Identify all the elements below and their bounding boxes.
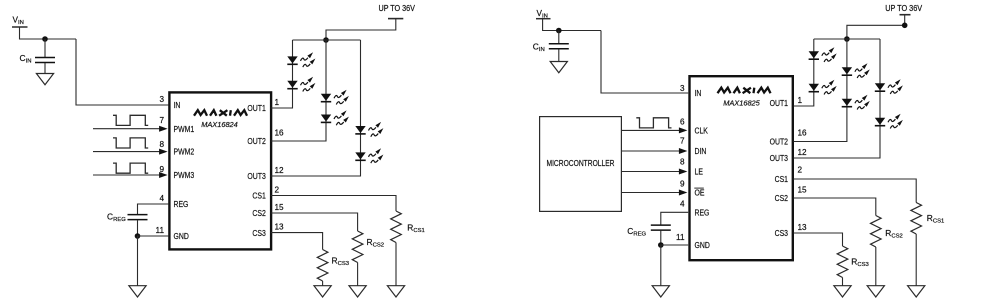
svg-text:13: 13: [798, 223, 808, 232]
svg-text:4: 4: [159, 194, 164, 203]
svg-text:1: 1: [275, 98, 280, 107]
svg-text:PWM3: PWM3: [174, 171, 195, 180]
svg-text:OE: OE: [695, 189, 705, 198]
svg-text:CS1: CS1: [252, 192, 266, 201]
svg-text:REG: REG: [695, 208, 710, 217]
svg-text:OUT2: OUT2: [247, 137, 266, 146]
svg-text:11: 11: [156, 226, 165, 235]
svg-text:1: 1: [798, 96, 803, 105]
svg-text:CS1: CS1: [775, 175, 789, 184]
svg-text:3: 3: [159, 95, 164, 104]
svg-text:MAX16825: MAX16825: [723, 98, 760, 107]
svg-text:OUT1: OUT1: [770, 99, 789, 108]
svg-text:PWM1: PWM1: [174, 125, 195, 134]
svg-text:OUT1: OUT1: [247, 104, 266, 113]
svg-text:2: 2: [275, 186, 280, 195]
svg-text:DIN: DIN: [695, 147, 707, 156]
svg-text:11: 11: [676, 233, 685, 242]
svg-text:12: 12: [798, 148, 808, 157]
svg-text:OUT3: OUT3: [247, 172, 266, 181]
svg-text:CS2: CS2: [252, 209, 266, 218]
svg-text:2: 2: [798, 166, 803, 175]
svg-text:8: 8: [680, 157, 685, 166]
svg-text:7: 7: [680, 137, 685, 146]
svg-text:16: 16: [798, 129, 808, 138]
svg-text:8: 8: [159, 140, 164, 149]
svg-text:GND: GND: [174, 232, 189, 241]
svg-text:CS3: CS3: [775, 229, 789, 238]
svg-text:LE: LE: [695, 168, 704, 177]
svg-text:3: 3: [680, 84, 685, 93]
svg-text:IN: IN: [174, 101, 181, 110]
svg-text:MICROCONTROLLER: MICROCONTROLLER: [547, 159, 615, 168]
svg-text:CLK: CLK: [695, 127, 709, 136]
svg-text:GND: GND: [695, 241, 710, 250]
svg-text:15: 15: [798, 186, 808, 195]
svg-text:13: 13: [275, 223, 285, 232]
svg-text:OUT3: OUT3: [770, 154, 789, 163]
svg-text:REG: REG: [174, 200, 189, 209]
svg-text:IN: IN: [695, 89, 702, 98]
svg-text:OUT2: OUT2: [770, 138, 789, 147]
svg-text:CS2: CS2: [775, 194, 789, 203]
svg-text:UP TO 36V: UP TO 36V: [379, 4, 416, 13]
svg-text:9: 9: [680, 179, 685, 188]
svg-text:6: 6: [680, 118, 685, 127]
svg-text:UP TO 36V: UP TO 36V: [885, 4, 923, 13]
svg-text:16: 16: [275, 128, 285, 137]
svg-text:4: 4: [680, 200, 685, 209]
svg-text:CS3: CS3: [252, 229, 266, 238]
svg-text:12: 12: [275, 166, 285, 175]
svg-text:7: 7: [159, 116, 164, 125]
svg-text:PWM2: PWM2: [174, 148, 195, 157]
svg-text:MAX16824: MAX16824: [201, 120, 238, 129]
svg-text:15: 15: [275, 203, 285, 212]
